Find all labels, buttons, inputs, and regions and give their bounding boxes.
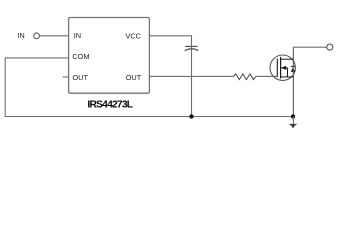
wire IN terminal to U1 (39, 35, 68, 37)
transistor Q1 body drop wire (287, 68, 289, 77)
svg-text:OUT: OUT (126, 73, 142, 82)
wire resistor to gate (256, 75, 277, 77)
transistor Q1 body diode triangle (291, 67, 295, 72)
capacitor C1 bottom curved plate (185, 49, 199, 51)
terminal output (327, 44, 333, 50)
svg-text:IN: IN (74, 31, 81, 40)
resistor R1 (234, 74, 256, 80)
svg-text:VCC: VCC (125, 32, 141, 41)
terminal IN (34, 33, 40, 39)
capacitor C1 top plate (185, 45, 197, 47)
svg-text:COM: COM (72, 52, 89, 61)
transistor Q1 gate plate (276, 59, 278, 77)
pin stub OUT left (63, 76, 69, 78)
wire drain-source vertical (292, 47, 294, 116)
transistor Q1 channel (280, 57, 282, 79)
ground (288, 124, 297, 128)
transistor Q1 drain tap (281, 58, 294, 60)
wire drain to output terminal (293, 46, 327, 48)
svg-text:OUT: OUT (72, 73, 88, 82)
junction dot capacitor/rail (189, 114, 193, 118)
svg-text:IN: IN (17, 31, 24, 40)
transistor Q1 body diode bar (291, 65, 295, 67)
transistor Q1 source tap (281, 76, 294, 78)
transistor Q1 body line (281, 67, 288, 69)
IC U1 IRS44273L body (69, 18, 150, 94)
wire OUT to resistor (149, 75, 233, 77)
transistor Q1 body arrow (281, 66, 286, 70)
transistor Q1 circle (270, 55, 295, 80)
ground stem (292, 116, 294, 123)
junction dot source/rail (291, 114, 295, 118)
svg-text:IRS44273L: IRS44273L (87, 100, 132, 111)
wire COM loop left and bottom rail (5, 58, 293, 117)
wire VCC to capacitor branch (149, 36, 191, 117)
